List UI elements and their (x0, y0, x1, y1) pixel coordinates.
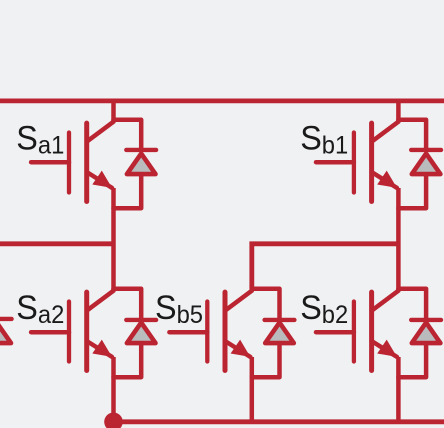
transistor S_b1 (IGBT) (316, 120, 426, 202)
junction node dot (104, 413, 123, 428)
wire: top DC bus (0, 99, 444, 104)
transistor S_a2 (IGBT) (31, 289, 141, 371)
wire: phase-b vertical rail (396, 99, 401, 422)
wire: phase-b midpoint link (252, 244, 399, 289)
diode of S_b5 (antiparallel) (252, 320, 295, 377)
diode of cut-off cell at left edge (0, 319, 12, 343)
diode of S_a2 (antiparallel) (114, 320, 157, 377)
transistor S_b5 (IGBT) (169, 289, 279, 371)
diode of S_b2 (antiparallel) (398, 320, 441, 377)
transistor S_b2 (IGBT) (316, 289, 426, 371)
wire: bottom bus (110, 419, 444, 424)
diode of S_b1 (antiparallel) (398, 150, 441, 208)
wire: phase-a vertical rail (111, 99, 116, 422)
diode of S_a1 (antiparallel) (114, 150, 157, 208)
wire: phase-a midpoint bus (0, 241, 114, 246)
transistor S_a1 (IGBT) (31, 120, 141, 202)
wire: S_b5 vertical rail (250, 244, 255, 422)
